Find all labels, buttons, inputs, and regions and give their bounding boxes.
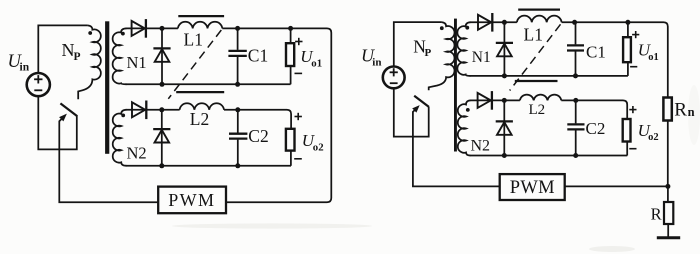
wire: Uin top to primary — [38, 25, 87, 73]
secondary winding N1 — [113, 28, 127, 84]
wire rail2 bottom (right) — [470, 155, 628, 157]
N2 polarity dot (right) — [466, 108, 470, 112]
node: D4 bottom (right) — [502, 153, 507, 158]
node: D1/D2 junction (right) — [502, 20, 507, 25]
inductor L2 (right) — [520, 95, 561, 101]
svg-text:PWM: PWM — [510, 178, 555, 198]
node: C1 bottom (right) — [573, 73, 578, 78]
svg-text:C1: C1 — [248, 46, 268, 66]
node: load tap — [288, 26, 293, 31]
secondary winding N2 (right) — [458, 100, 471, 155]
node: D3/D4 junction — [159, 107, 164, 112]
svg-text:R: R — [651, 205, 662, 224]
svg-text:n: n — [688, 105, 695, 119]
switch S blade — [60, 103, 77, 116]
plus sign output2 (right) — [629, 109, 636, 111]
capacitor C2 — [237, 110, 239, 133]
minus sign output2 (right) — [629, 148, 636, 150]
node: C2 bottom (right) — [573, 153, 578, 158]
L1 core bar — [178, 15, 224, 17]
rectifier diode D1 — [132, 21, 145, 36]
svg-text:L1: L1 — [524, 25, 543, 45]
plus sign output1 — [295, 41, 302, 43]
L1 core bar (right) — [518, 9, 560, 11]
wire: L2 to load2 — [224, 110, 291, 129]
control arrow to switch — [59, 117, 158, 203]
wire rail2 bottom — [126, 165, 292, 167]
svg-text:in: in — [20, 62, 30, 74]
right circuit: source Uin — [383, 67, 405, 89]
rectifier diode D1 (right) — [478, 15, 491, 30]
PWM controller — [158, 187, 226, 214]
N1 polarity dot (right) — [465, 26, 469, 30]
svg-text:L1: L1 — [184, 29, 203, 49]
node: C2 bottom — [235, 163, 240, 168]
inductor L1 (right) — [517, 16, 562, 23]
node: L1 output — [235, 26, 240, 31]
plus sign output1 (right) — [632, 34, 639, 36]
svg-text:in: in — [372, 56, 381, 68]
wire rail1 bottom (right) — [470, 75, 628, 77]
inductor L1 — [178, 22, 222, 29]
primary winding NP — [78, 25, 101, 99]
secondary winding N2 — [113, 110, 127, 166]
svg-text:N1: N1 — [472, 49, 491, 66]
node: feedback divider — [665, 184, 670, 189]
load resistor 2 (right) — [623, 119, 631, 142]
svg-text:o2: o2 — [648, 132, 659, 143]
wire: L2 to load2 (right) — [561, 100, 627, 119]
svg-text:P: P — [74, 51, 81, 63]
resistor R — [667, 186, 669, 202]
wire: Uin bottom to switch (right) — [394, 88, 429, 136]
svg-text:L2: L2 — [529, 102, 546, 118]
N2 polarity dot — [121, 114, 125, 118]
capacitor C1 (right) — [575, 22, 577, 44]
NP polarity dot (right) — [440, 26, 444, 30]
capacitor C2 (right) — [575, 100, 577, 123]
coupling dashed line (right) — [510, 24, 561, 90]
wire: L1 to output / right feedback wire — [222, 28, 331, 202]
node: C1 bottom — [235, 82, 240, 87]
svg-text:R: R — [674, 99, 687, 120]
wire: PWM to feedback node (right) — [565, 185, 668, 187]
svg-text:o1: o1 — [311, 57, 322, 69]
primary winding NP (right) — [429, 22, 455, 90]
coupling dashed line — [168, 30, 221, 99]
plus sign output2 — [295, 116, 302, 118]
minus sign output1 (right) — [630, 66, 637, 68]
node: D3/D4 junction (right) — [502, 98, 507, 103]
svg-text:C2: C2 — [586, 119, 606, 138]
node: L2 output — [235, 107, 240, 112]
L2 core bar (right) — [515, 80, 558, 82]
N1 polarity dot — [121, 32, 125, 36]
L2 core bar — [176, 91, 224, 93]
node: D2 bottom — [160, 82, 165, 87]
control arrow to switch (right) — [413, 108, 500, 186]
PWM controller (right) — [500, 174, 565, 200]
wire: L1 to output / wire to Rn (right) — [562, 22, 668, 97]
wire rail1 top left (right) — [470, 21, 517, 23]
NP polarity dot — [88, 31, 92, 35]
wire: Uin bottom to switch — [38, 96, 77, 149]
svg-text:o1: o1 — [648, 52, 659, 63]
wire rail2 top left (right) — [470, 99, 520, 101]
node: L2 output (right) — [573, 98, 578, 103]
switch S blade (right) — [414, 96, 429, 107]
load resistor 2 — [286, 129, 295, 151]
transformer core — [105, 21, 109, 154]
svg-text:L2: L2 — [190, 109, 209, 129]
wire rail1 bottom — [126, 83, 291, 85]
freewheeling diode D2 — [161, 28, 163, 84]
svg-text:P: P — [425, 47, 432, 59]
freewheeling diode D4 (right) — [503, 100, 505, 155]
svg-text:N1: N1 — [127, 53, 147, 72]
svg-text:C1: C1 — [586, 42, 606, 61]
node: L1 output (right) — [572, 20, 577, 25]
wire rail2 top left — [126, 109, 180, 111]
node: load tap (right) — [625, 20, 630, 25]
svg-text:N2: N2 — [127, 144, 147, 163]
node: D1/D2 junction — [160, 26, 165, 31]
freewheeling diode D4 — [161, 110, 163, 166]
svg-text:o2: o2 — [313, 141, 324, 153]
freewheeling diode D2 (right) — [503, 22, 505, 76]
wire: Uin top to primary (right) — [394, 22, 442, 66]
ground — [657, 236, 680, 239]
capacitor C1 — [237, 28, 239, 50]
inductor L2 — [180, 103, 224, 110]
svg-text:PWM: PWM — [168, 190, 215, 210]
svg-text:C2: C2 — [248, 126, 268, 146]
rectifier diode D3 (right) — [478, 93, 491, 108]
node: D2 bottom (right) — [502, 73, 507, 78]
resistor Rn — [663, 98, 671, 121]
svg-text:N2: N2 — [471, 137, 491, 154]
minus sign output2 — [294, 158, 302, 160]
minus sign output1 — [295, 72, 303, 74]
node: D4 bottom — [159, 163, 164, 168]
left circuit: source Uin — [27, 73, 50, 96]
scan smudges (background) — [172, 223, 372, 228]
load resistor 1 — [290, 28, 292, 43]
rectifier diode D3 — [132, 102, 145, 117]
secondary winding N1 (right) — [457, 22, 470, 76]
wire rail1 top left — [126, 27, 178, 29]
load resistor 1 (right) — [627, 22, 629, 37]
transformer core (right) — [454, 19, 457, 152]
